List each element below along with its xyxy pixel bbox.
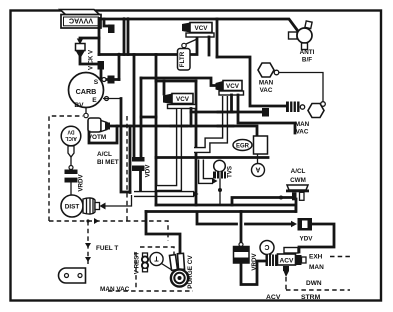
wire purge feed [146, 212, 180, 256]
svg-text:T: T [154, 255, 159, 262]
svg-text:VCV: VCV [195, 25, 209, 32]
pin terminal [98, 61, 105, 70]
node junction dots on top bus [122, 17, 126, 21]
wire VCV left pipe 2 to pin line [191, 109, 263, 113]
hose VCV right pipe 1 staircase [194, 96, 225, 150]
wire VDV feeder x134 [133, 55, 136, 158]
check valve VCKV [76, 44, 95, 71]
pin terminal [262, 108, 269, 117]
wire drop x128 [127, 19, 130, 55]
wire check valve to S line [80, 57, 101, 80]
arrow on dashed bottom edge [94, 218, 99, 224]
svg-text:ACV: ACV [266, 294, 281, 301]
carburetor CARB [69, 73, 109, 110]
arrow on dashed drop [85, 257, 91, 262]
svg-text:ANTI: ANTI [300, 49, 315, 56]
distributor DIST [61, 195, 106, 217]
wire horizontal feed line y54 [99, 37, 197, 55]
node C circle [260, 241, 275, 258]
wire VCV left feeder [163, 81, 166, 94]
node T circle [150, 252, 171, 269]
svg-text:VAC: VAC [260, 87, 273, 94]
vacuum restrictor V REST [134, 252, 149, 275]
wire YDV loop to ACV [299, 224, 334, 252]
svg-text:PURGE CV: PURGE CV [187, 255, 194, 289]
solenoid vacuum valve VCV top [182, 23, 214, 38]
wire bus B1 [141, 78, 216, 86]
dashed box purge [135, 252, 137, 288]
pin terminal VOTM [105, 123, 110, 130]
wire elbow to lower MAN VAC [217, 57, 286, 106]
dashed drop FUEL T / MAN VAC [87, 221, 89, 264]
wire drop x124 [123, 19, 126, 55]
wire bus L3 right with arrow [246, 223, 294, 226]
svg-text:C: C [264, 243, 269, 250]
temperature vacuum switch TVS [213, 160, 234, 205]
wire VCV top pipe 2 [208, 37, 211, 55]
wire drop from VOTM line [129, 126, 132, 193]
svg-text:S: S [94, 79, 99, 86]
wire bus B2 [156, 80, 196, 83]
wire VCV right pipe 3 [238, 95, 295, 133]
vacuum delay valve YDV [298, 218, 314, 243]
svg-text:DV: DV [67, 129, 75, 135]
throttle modulator VOTM [88, 118, 107, 141]
wire bus L3 left of VRDV [197, 213, 237, 224]
wire VCV left pipe [141, 116, 156, 119]
purge control valve PURGE CV [169, 253, 194, 288]
air cleaner cold weather modulator A/CL CWM [286, 168, 309, 200]
svg-text:V REST: V REST [134, 252, 141, 275]
svg-text:BV: BV [74, 102, 84, 109]
pin terminal [108, 25, 115, 34]
wire long drop to M2 [195, 81, 198, 205]
node A circle [252, 164, 265, 177]
wire DIST to center [105, 195, 132, 206]
solenoid vacuum valve VCV left [163, 94, 196, 109]
hose connector ribbed [286, 102, 305, 113]
wire riser to bus B2 [155, 55, 158, 82]
dashed box left [49, 116, 83, 221]
wire EGR line under box [156, 156, 268, 159]
wire VDV stem [139, 171, 142, 192]
arrow on dashed drop [85, 243, 91, 248]
wire EGR to node A [257, 154, 259, 163]
EGR body box [254, 136, 268, 154]
svg-text:A/CL: A/CL [97, 151, 112, 158]
svg-text:FUEL T: FUEL T [96, 245, 118, 252]
EGR valve EGR [233, 140, 252, 151]
wire E drop to hose bar [121, 99, 130, 193]
hose EGR line to TVS area [201, 160, 218, 185]
hose under VCV left [157, 109, 179, 188]
air control valve ACV assembly [266, 248, 307, 278]
svg-text:A: A [255, 166, 260, 173]
svg-text:YDV: YDV [300, 236, 314, 243]
svg-text:MAN: MAN [259, 80, 274, 87]
svg-text:EGR: EGR [236, 144, 250, 150]
svg-text:MAN: MAN [309, 264, 324, 271]
svg-text:V CK V: V CK V [89, 50, 95, 70]
vacuum delay valve VDV [132, 157, 152, 177]
wire thin loop MAN VAC upper to lower [279, 73, 323, 102]
manifold vacuum source MAN VAC lower [295, 104, 324, 136]
wire check valve branch [98, 19, 101, 55]
wire S port line [104, 78, 119, 81]
svg-text:VRDV: VRDV [78, 174, 85, 192]
wire drop to VCV2 nozzle feed at x=217 [216, 19, 219, 57]
svg-text:B/F: B/F [302, 57, 312, 64]
wire VRDV to DIST [70, 183, 72, 196]
wire riser M2 left [155, 81, 158, 205]
wire M3 purge riser [146, 199, 296, 212]
node junction dot [86, 219, 89, 222]
hose bar center [134, 191, 199, 198]
wire repaint crossings over hose [218, 111, 233, 114]
node junction dot [279, 196, 283, 200]
wire VVVAC to pin [104, 19, 110, 26]
vacuum reservoir VVVAC box [60, 10, 101, 29]
riser to VRDV right [240, 212, 243, 244]
wire EGR feed [190, 112, 193, 126]
wire VCV right pipe 2 [230, 95, 233, 112]
svg-text:MAN VAC: MAN VAC [100, 286, 130, 293]
vacuum delay valve VRDV right [234, 247, 259, 271]
svg-text:A/CL: A/CL [291, 168, 306, 175]
air cleaner vacuum delay valve VRDV [65, 170, 85, 192]
svg-text:STRM: STRM [301, 294, 321, 301]
node junction dot top [98, 17, 102, 21]
svg-text:VAC: VAC [296, 129, 309, 136]
wire VRDV to ACV [241, 261, 265, 285]
node BV drop [85, 108, 87, 114]
anti backfire valve ANTI B/F [289, 21, 315, 64]
air cleaner diverter valve A/CL DV [61, 126, 81, 157]
solenoid vacuum valve VCV right [216, 81, 244, 96]
svg-text:DWN: DWN [306, 280, 322, 287]
svg-text:VOTM: VOTM [88, 134, 106, 141]
svg-text:VCV: VCV [176, 96, 190, 103]
wire VOTM to VDV feeders [107, 126, 257, 136]
svg-text:VDV: VDV [145, 164, 152, 178]
svg-text:FLTR: FLTR [179, 51, 186, 67]
pin terminal on S line [108, 76, 115, 84]
wire VOTM lower loop [89, 126, 117, 143]
svg-text:A/CL: A/CL [65, 135, 77, 141]
arrow into check valve [77, 39, 83, 45]
svg-text:CARB: CARB [76, 87, 97, 96]
wire M1 to CWM [232, 198, 292, 206]
wire VDV feeder x141 [140, 78, 143, 157]
svg-text:EXH: EXH [309, 254, 323, 261]
svg-text:TVS: TVS [227, 166, 234, 178]
svg-text:VCV: VCV [226, 83, 240, 90]
svg-text:DIST: DIST [65, 204, 80, 211]
wire M2 [156, 204, 296, 207]
wire A/CL DV to VRDV [70, 157, 72, 166]
svg-text:VVVAC: VVVAC [69, 17, 93, 26]
manifold vacuum fitting MAN VAC bottom left [59, 268, 130, 293]
dashed downstream line [286, 277, 350, 290]
wire top bus from VVVAC box to ANTI B/F [102, 19, 298, 31]
svg-text:E: E [92, 97, 97, 104]
svg-text:ACV: ACV [280, 258, 295, 265]
svg-text:BI MET: BI MET [97, 159, 119, 166]
manifold vacuum source MAN VAC upper [258, 63, 279, 94]
filter FLTR [178, 40, 197, 71]
wire S loop riser [118, 55, 121, 80]
svg-text:MAN: MAN [295, 121, 310, 128]
wire E port [103, 98, 121, 100]
wire repaint crossing over hose [171, 125, 187, 128]
svg-text:CWM: CWM [290, 177, 306, 184]
